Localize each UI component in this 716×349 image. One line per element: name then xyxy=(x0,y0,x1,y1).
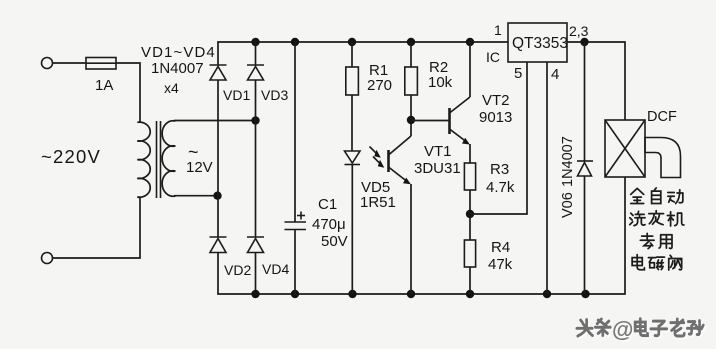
resistor R1 xyxy=(346,42,359,151)
label VD3 xyxy=(261,87,288,103)
label pin 4 xyxy=(551,66,559,83)
label R1 270 xyxy=(367,62,392,94)
node secondary bottom tap xyxy=(213,192,221,200)
wire IC pin4 to bottom bus xyxy=(546,62,548,294)
svg-text:VD3: VD3 xyxy=(261,87,288,103)
IC U1 QT3353 xyxy=(508,23,568,62)
svg-text:3DU31: 3DU31 xyxy=(414,160,461,177)
label R4 47k xyxy=(488,239,513,273)
wire J2 to transformer primary bottom xyxy=(53,197,141,258)
wire VD3 column middle xyxy=(255,121,257,238)
svg-text:R3: R3 xyxy=(490,161,509,178)
node bottom bus R4 xyxy=(466,290,474,298)
svg-text:VT1: VT1 xyxy=(424,143,452,160)
svg-text:C1: C1 xyxy=(318,196,337,213)
svg-text:5: 5 xyxy=(514,65,522,82)
capacitor C1 xyxy=(285,42,307,294)
svg-text:x4: x4 xyxy=(164,80,179,96)
fuse FU 1A xyxy=(86,58,116,70)
wire secondary top tap to VD3 column xyxy=(174,120,256,122)
svg-text:1: 1 xyxy=(494,22,502,38)
LED VD5 xyxy=(345,151,361,294)
svg-text:VD4: VD4 xyxy=(262,261,289,277)
label pin 1 xyxy=(494,22,502,38)
valve label line2 (xi yi ji) xyxy=(630,211,684,226)
node top bus R2 xyxy=(407,38,415,46)
label IC xyxy=(486,49,500,65)
node top bus VD3 xyxy=(251,38,259,46)
watermark at sign xyxy=(612,317,635,343)
diode VD4 xyxy=(247,237,264,294)
svg-text:1N4007: 1N4007 xyxy=(560,136,576,187)
wire secondary bottom tap to VD1 column xyxy=(174,195,218,197)
svg-text:VD2: VD2 xyxy=(224,262,251,278)
svg-text:10k: 10k xyxy=(428,74,453,91)
label VT1 3DU31 xyxy=(414,143,461,177)
svg-text:VT2: VT2 xyxy=(482,92,510,109)
svg-text:QT3353: QT3353 xyxy=(512,35,568,52)
label pin 5 xyxy=(514,65,522,82)
solenoid valve DCF xyxy=(605,120,645,177)
terminal J2 (AC input bottom) xyxy=(42,253,53,264)
node bottom bus VD4 xyxy=(251,290,259,298)
svg-text:1A: 1A xyxy=(95,77,113,94)
svg-text:2,3: 2,3 xyxy=(569,23,589,39)
svg-text:V06: V06 xyxy=(560,192,576,218)
node R3 R4 junction xyxy=(466,210,474,218)
svg-text:~: ~ xyxy=(188,142,199,162)
diode VD2 xyxy=(210,177,626,294)
node top bus R1 xyxy=(348,38,356,46)
svg-text:1N4007: 1N4007 xyxy=(151,60,204,77)
node bottom bus VT1 emitter xyxy=(407,290,415,298)
svg-text:R4: R4 xyxy=(491,239,510,256)
svg-text:IC: IC xyxy=(486,49,500,65)
wire fuse to transformer primary top xyxy=(116,63,140,122)
svg-text:DCF: DCF xyxy=(647,109,677,125)
svg-text:~220V: ~220V xyxy=(41,146,101,167)
svg-text:VD1~VD4: VD1~VD4 xyxy=(141,44,216,61)
label VD4 xyxy=(262,261,289,277)
watermark toutiao dianzilaosun (embossed) xyxy=(579,320,705,337)
label 12V xyxy=(186,142,213,176)
svg-text:4.7k: 4.7k xyxy=(486,179,515,196)
label C1 470u 50V xyxy=(312,196,348,250)
valve label line3 (zhuan yong) xyxy=(640,233,672,248)
node top bus VT2 collector xyxy=(466,38,474,46)
resistor R2 xyxy=(405,42,418,120)
label DCF xyxy=(647,109,677,125)
node bottom bus pin4 xyxy=(543,290,551,298)
label VD1~VD4 1N4007 x4 xyxy=(141,44,216,96)
wire positive top bus xyxy=(218,42,625,120)
light arrows VD5 to VT1 xyxy=(370,147,385,168)
label R2 10k xyxy=(428,59,453,91)
node bottom bus V06 xyxy=(581,290,589,298)
label 1A xyxy=(95,77,113,94)
transformer T secondary winding xyxy=(162,121,175,196)
diode VD3 xyxy=(247,42,264,121)
phototransistor VT1 3DU31 xyxy=(389,120,412,294)
resistor R4 xyxy=(464,240,475,294)
svg-text:470μ: 470μ xyxy=(312,216,346,233)
valve label line1 (quan zi dong) xyxy=(631,188,683,204)
svg-text:VD1: VD1 xyxy=(223,87,250,103)
svg-text:50V: 50V xyxy=(321,233,348,250)
diode V06 xyxy=(577,42,593,294)
label VD5 1R51 xyxy=(360,179,396,211)
valve label line4 (dian ci fa) xyxy=(632,255,682,270)
label pin 2,3 xyxy=(569,23,589,39)
valve outlet elbow pipe xyxy=(645,138,681,178)
diode VD1 xyxy=(210,65,227,196)
svg-text:@: @ xyxy=(612,317,633,342)
label ~220V xyxy=(41,146,101,167)
node top bus V06 xyxy=(580,38,588,46)
node bottom bus VD5 xyxy=(348,290,356,298)
svg-text:9013: 9013 xyxy=(479,109,512,126)
transformer T primary winding xyxy=(137,122,150,197)
label V06 1N4007 (rotated) xyxy=(560,136,576,218)
label R3 4.7k xyxy=(486,161,515,196)
node secondary top tap xyxy=(251,116,259,124)
svg-text:270: 270 xyxy=(367,77,392,94)
transistor VT2 9013 xyxy=(450,42,471,163)
label VD2 xyxy=(224,262,251,278)
svg-text:1R51: 1R51 xyxy=(360,194,396,211)
node R2 bottom xyxy=(407,116,415,124)
wire J1 to fuse xyxy=(53,62,87,64)
resistor R3 xyxy=(464,163,475,240)
label VT2 9013 xyxy=(479,92,512,126)
transformer T core xyxy=(157,121,161,198)
node top bus C1 xyxy=(291,38,299,46)
svg-text:4: 4 xyxy=(551,66,559,83)
terminal J1 (AC input top) xyxy=(42,58,53,69)
wire R2 bottom to VT2 base xyxy=(411,120,450,122)
wire R3R4 junction to IC pin5 xyxy=(470,62,527,214)
label VD1 xyxy=(223,87,250,103)
node bottom bus C1 xyxy=(291,290,299,298)
svg-text:47k: 47k xyxy=(488,256,513,273)
